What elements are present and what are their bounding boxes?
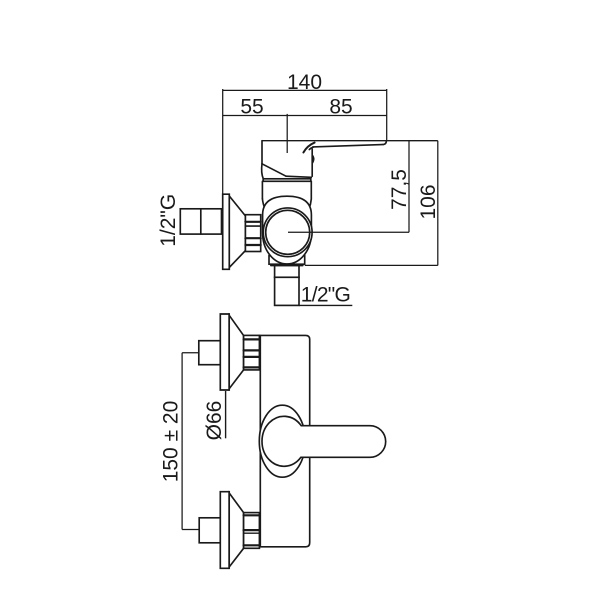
- handle skirt ellipse (front view): [259, 405, 305, 477]
- lever (side view): [303, 141, 386, 164]
- upper flange cone (front view): [229, 315, 243, 388]
- inlet pipe (side view, 1/2"G nipple): [180, 209, 221, 234]
- knurled nut (side view): [245, 215, 260, 252]
- left extension line: [222, 89, 224, 194]
- body shoulders (side view): [262, 181, 311, 209]
- lever joint detail (teardrop): [312, 155, 314, 164]
- dimension line 106: [437, 141, 439, 266]
- handle boss + lever combined (front view): [262, 416, 386, 466]
- outlet collar (side view): [275, 266, 299, 278]
- svg-text:140: 140: [287, 71, 322, 94]
- svg-text:150 ± 20: 150 ± 20: [160, 401, 183, 483]
- outlet pipe 1/2"G (side view): [275, 277, 299, 305]
- outlet neck (side view): [269, 256, 305, 266]
- dimension line 150±20: [181, 353, 183, 530]
- valve body outer circle (side view): [263, 208, 312, 257]
- dimension line 77,5: [408, 141, 410, 233]
- dimension line 140: [223, 89, 387, 91]
- lower wall flange disc (front view): [220, 492, 229, 569]
- lower knurled nut (front view): [244, 513, 260, 549]
- upper wall flange disc (front view): [220, 314, 229, 390]
- svg-text:1/2"G: 1/2"G: [157, 194, 180, 247]
- wall flange (side view escutcheon disc): [223, 194, 246, 269]
- svg-text:85: 85: [329, 95, 352, 118]
- cartridge cap band (side view): [263, 179, 311, 182]
- leader of Ø66: [225, 391, 227, 438]
- handle base block (side view): [262, 141, 313, 179]
- valve housing dome (side view): [263, 196, 312, 264]
- middle extension tick (55/85 divider): [286, 114, 288, 153]
- svg-text:Ø66: Ø66: [203, 401, 226, 441]
- leader from valve centre: [288, 231, 409, 233]
- lower flange cone (front view): [229, 493, 243, 567]
- flange cone (side view): [229, 196, 245, 268]
- upper supply pipe (front view): [199, 341, 221, 365]
- valve body inner circle (side view): [266, 210, 310, 254]
- mixer body (front view): [260, 335, 309, 546]
- svg-text:1/2"G: 1/2"G: [301, 284, 351, 307]
- handle top line + extension to 106: [262, 140, 438, 142]
- svg-text:77,5: 77,5: [388, 169, 411, 210]
- underline of bottom 1/2"G: [299, 304, 352, 306]
- upper knurled nut (front view): [244, 335, 260, 370]
- right extension line: [386, 89, 388, 141]
- dimension line 55 / 85: [223, 115, 387, 117]
- lower supply pipe (front view): [199, 518, 220, 543]
- svg-text:55: 55: [240, 95, 263, 118]
- leader bottom of body: [305, 264, 438, 266]
- svg-text:106: 106: [417, 184, 440, 219]
